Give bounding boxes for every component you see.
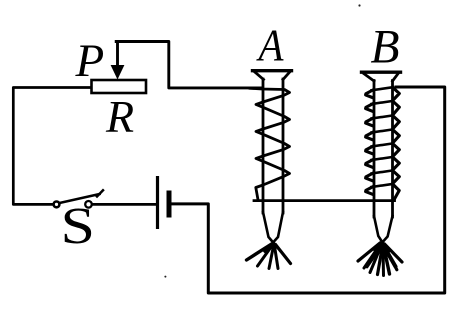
svg-text:R: R (105, 91, 134, 142)
svg-text:P: P (75, 35, 105, 87)
svg-text:A: A (256, 19, 284, 70)
svg-text:B: B (371, 21, 400, 74)
svg-text:S: S (61, 198, 96, 255)
